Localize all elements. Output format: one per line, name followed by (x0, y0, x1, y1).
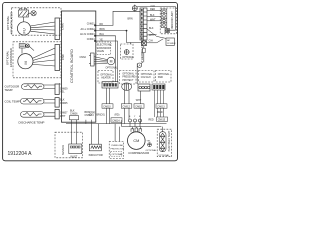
label CN611 box (134, 104, 144, 108)
svg-text:CN606: CN606 (70, 113, 78, 116)
svg-text:M: M (23, 61, 28, 64)
svg-text:CN613: CN613 (157, 105, 165, 108)
wires strip1 lower to AC power (147, 29, 166, 38)
wires strip1 to strip2 (147, 10, 161, 20)
svg-text:COIL TEMP: COIL TEMP (5, 99, 20, 103)
svg-text:PROTECTOR: PROTECTOR (111, 148, 125, 150)
svg-text:HEATER: HEATER (101, 77, 110, 80)
label CN613 box (156, 104, 167, 108)
compressor terminals (131, 128, 142, 132)
thermistor coil temp (21, 98, 45, 104)
wire RD row1 riser (96, 11, 140, 25)
label CN615 box (157, 117, 168, 121)
svg-text:THERMAL FUSE: THERMAL FUSE (140, 40, 144, 62)
wire left drop (121, 120, 123, 127)
connector CN606 (70, 116, 79, 120)
svg-text:RD: RD (100, 23, 104, 26)
dark connector 4 pin (152, 84, 165, 90)
svg-text:OPTIONAL: OPTIONAL (146, 149, 158, 152)
optional pressure switch dashed box (120, 71, 137, 85)
svg-text:VALVE: VALVE (97, 50, 105, 53)
svg-text:(RD): (RD) (115, 115, 120, 117)
thermal fuse wire (143, 46, 145, 63)
svg-text:YEL: YEL (60, 91, 65, 94)
svg-text:FU: FU (21, 28, 26, 33)
svg-text:A: A (139, 63, 141, 67)
svg-text:YE: YE (100, 38, 104, 41)
svg-text:EXPANSION: EXPANSION (97, 47, 111, 50)
control board box (62, 11, 96, 122)
svg-text:WHT: WHT (149, 34, 155, 37)
thermistor outdoor temp (22, 84, 45, 90)
wires inductor (91, 124, 98, 145)
ammeter circle A (137, 62, 143, 67)
svg-text:DISCHARGE TEMP: DISCHARGE TEMP (19, 120, 45, 124)
solenoid circle (124, 50, 129, 55)
economizer lamp circle (26, 44, 30, 48)
wires discharge temp to CN607 (44, 113, 55, 116)
svg-text:CN605: CN605 (60, 102, 68, 105)
electronic expansion valve label box (96, 42, 111, 55)
wires capacitor down (125, 90, 130, 124)
wire ventilator box to fan (24, 13, 32, 22)
svg-text:CN614: CN614 (112, 119, 120, 122)
svg-text:OPTIONAL: OPTIONAL (122, 56, 134, 59)
wire TB down (140, 91, 142, 124)
wires coil temp to CN605 (44, 100, 55, 103)
thermistor discharge temp (21, 112, 45, 118)
svg-text:BRN: BRN (128, 18, 133, 21)
ventilator lamp circle (31, 11, 36, 16)
wires motor M to connector CN8 (33, 48, 55, 66)
junction dot (126, 30, 128, 32)
wire to motor (22, 46, 26, 54)
svg-text:OPTIONAL: OPTIONAL (122, 72, 134, 75)
indoor terminal strip (161, 9, 167, 28)
capacitor ellipse (122, 83, 132, 90)
svg-text:AC-N CN603: AC-N CN603 (80, 33, 95, 36)
connector CN8 (55, 45, 60, 71)
svg-text:OPTIONAL: OPTIONAL (158, 73, 170, 76)
bus wire 2 (122, 126, 162, 128)
connector CN609 (55, 84, 59, 95)
wires outdoor temp to CN609 (44, 85, 55, 88)
wire branch solenoid and coil (127, 31, 142, 44)
svg-text:OPTIONAL: OPTIONAL (112, 153, 124, 156)
svg-text:RED: RED (149, 118, 154, 121)
fan motor FU circle (17, 22, 30, 35)
label CN610 box (102, 104, 113, 108)
svg-text:RED: RED (150, 8, 155, 11)
svg-text:1912204 A: 1912204 A (8, 151, 33, 157)
svg-text:OPTIONAL: OPTIONAL (158, 154, 170, 157)
trunk wire right (136, 64, 138, 85)
inlet connector block (69, 144, 82, 154)
economizer motor M circle (18, 54, 33, 69)
svg-text:ECONOMIZER: ECONOMIZER (9, 48, 13, 67)
svg-text:INDOOR UNIT: INDOOR UNIT (170, 11, 174, 29)
bus wire 1 (66, 123, 167, 125)
optional solenoid dashed box (121, 44, 134, 59)
svg-text:OPTIONAL: OPTIONAL (100, 73, 112, 76)
svg-text:CN615: CN615 (158, 119, 166, 122)
wire CN606 down (72, 120, 77, 144)
svg-text:RED: RED (158, 111, 163, 114)
wires from dark connector down (154, 90, 163, 117)
optional heater dashed box (98, 71, 113, 84)
label CN612 box (121, 104, 132, 108)
compressor motor CM circle (128, 132, 146, 150)
overload protector dashed box (109, 142, 123, 159)
switch stroke (157, 39, 164, 43)
pin nubs on board right edge (94, 25, 96, 42)
optional CO2 aux dashed box (139, 71, 155, 83)
4-way valve coil box (142, 41, 147, 46)
svg-text:ELECTRONIC: ELECTRONIC (97, 45, 112, 47)
svg-text:CONTROL BOARD: CONTROL BOARD (69, 49, 74, 83)
optional economizer dashed box (13, 42, 61, 78)
svg-text:OPTIONAL: OPTIONAL (106, 66, 119, 69)
indoor unit dashed box (160, 8, 176, 34)
svg-text:BLK: BLK (150, 14, 155, 17)
connector CN605 (55, 98, 59, 108)
svg-text:BRN: BRN (100, 28, 105, 31)
fuse body (142, 48, 145, 52)
wire stems to compressor (132, 127, 140, 129)
wire coil to switch (146, 42, 156, 44)
svg-text:AC-L CN602: AC-L CN602 (81, 28, 96, 31)
connector CN607 (55, 109, 59, 119)
svg-text:HEAT BAND TEMP: HEAT BAND TEMP (168, 130, 171, 151)
svg-text:BLU: BLU (100, 33, 105, 36)
economizer control box (19, 44, 25, 48)
mid terminal block (102, 82, 118, 88)
svg-text:CN62: CN62 (80, 56, 87, 59)
svg-text:INDUCTOR: INDUCTOR (89, 153, 103, 157)
ventilator damper box (19, 9, 29, 17)
svg-text:BLK: BLK (149, 27, 154, 30)
label CN614 box (111, 118, 122, 122)
svg-text:WHT: WHT (150, 18, 156, 21)
svg-text:CN610: CN610 (103, 105, 111, 108)
optional AC ventilator dashed box (12, 8, 62, 35)
svg-text:C/H: C/H (149, 39, 153, 42)
connector CN30 (89, 53, 94, 66)
wires to EEV motor (94, 57, 107, 64)
svg-text:WHT: WHT (60, 115, 66, 118)
optional sensor circle near compressor (148, 143, 152, 147)
svg-text:WHT: WHT (136, 99, 142, 102)
terminal block strip outdoor (140, 8, 147, 40)
svg-text:BR(OG): BR(OG) (97, 115, 106, 117)
optional SMD dashed box (156, 71, 172, 83)
wire BRN row2 (96, 30, 127, 32)
svg-text:CM: CM (133, 139, 139, 143)
svg-text:CN612: CN612 (123, 105, 131, 108)
svg-text:OVERLOAD: OVERLOAD (111, 144, 124, 147)
wire heat band top (162, 127, 164, 132)
inductor box (89, 144, 101, 151)
wire CN611 down (86, 120, 91, 124)
svg-text:CN604: CN604 (87, 38, 95, 41)
svg-text:INLET: INLET (71, 155, 78, 158)
wire BLU trunk down (96, 36, 116, 82)
switch stroke (30, 47, 35, 51)
wires mid terminal down (106, 88, 109, 124)
svg-text:POWER: POWER (167, 43, 176, 45)
svg-text:PRESSURE: PRESSURE (122, 77, 135, 79)
svg-text:CN601: CN601 (87, 23, 95, 26)
connector CN60 (55, 18, 60, 40)
AC POWER box (166, 38, 174, 45)
svg-text:M: M (110, 59, 113, 63)
wire ground to indoor ground (137, 7, 175, 31)
wires fan FU to connector CN60 (30, 22, 55, 34)
svg-text:CN611: CN611 (135, 105, 143, 108)
svg-text:OPTIONAL: OPTIONAL (141, 73, 153, 76)
heat band dashed box (157, 129, 172, 157)
svg-text:(OG): (OG) (89, 115, 94, 117)
EEV motor M circle (107, 57, 115, 65)
wire YE trunk down (96, 41, 118, 82)
svg-text:AC: AC (167, 39, 170, 42)
heat band heater element (159, 132, 166, 152)
indoor ground terminal (165, 28, 169, 32)
border frame (3, 2, 178, 160)
transformer terminal block (138, 84, 150, 91)
svg-text:SMD: SMD (158, 77, 163, 79)
wires overload top (115, 124, 119, 142)
svg-text:TEMP.: TEMP. (5, 88, 14, 92)
svg-text:AC VENTILATOR: AC VENTILATOR (9, 12, 13, 34)
wire strip1 to coil (143, 40, 145, 41)
optional inlet dashed box (55, 132, 83, 158)
svg-text:CN60: CN60 (61, 22, 65, 30)
crimp terminals (129, 119, 142, 127)
svg-text:PROTECT: PROTECT (122, 80, 134, 82)
ground screw (132, 5, 137, 12)
svg-text:CO2 AUX: CO2 AUX (141, 76, 151, 79)
svg-text:SENSOR: SENSOR (62, 145, 65, 155)
